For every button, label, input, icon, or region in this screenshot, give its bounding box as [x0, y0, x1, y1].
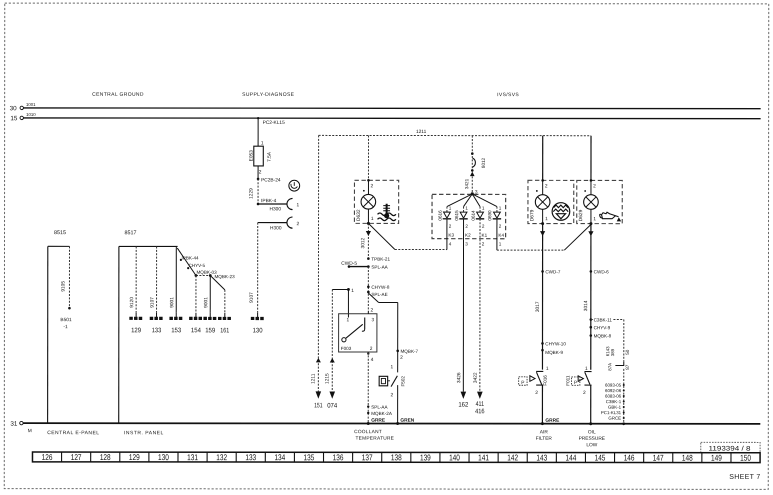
switch F003 (coolant temperature)	[339, 314, 377, 352]
wire K2 3426	[462, 219, 464, 392]
svg-text:3014: 3014	[583, 300, 589, 311]
diode 0616 (K3)	[447, 194, 472, 207]
svg-text:LOW: LOW	[586, 442, 597, 448]
splice bar	[196, 275, 210, 277]
svg-text:134: 134	[274, 452, 285, 462]
svg-text:1: 1	[482, 206, 485, 211]
node MQBK-9	[541, 349, 544, 352]
svg-text:151: 151	[314, 402, 323, 409]
svg-text:138: 138	[391, 452, 402, 462]
svg-text:K3: K3	[448, 233, 454, 238]
svg-text:TPBK-21: TPBK-21	[371, 257, 390, 262]
svg-text:9107: 9107	[249, 292, 255, 303]
svg-text:SPL-AA: SPL-AA	[371, 405, 388, 410]
wire to lamp D679	[542, 136, 544, 181]
wire 3012	[367, 223, 369, 258]
svg-text:3426: 3426	[456, 372, 462, 383]
svg-text:127: 127	[71, 452, 82, 462]
svg-text:0614: 0614	[471, 210, 476, 221]
svg-text:9001: 9001	[203, 297, 209, 308]
svg-text:129: 129	[129, 452, 140, 462]
ground 161	[224, 313, 226, 317]
svg-text:126: 126	[42, 452, 53, 462]
svg-text:9105: 9105	[60, 281, 66, 292]
lamp box D629	[577, 180, 623, 223]
node CWD-6	[590, 270, 593, 273]
svg-text:1: 1	[390, 364, 393, 370]
wire 1211 down	[317, 135, 319, 392]
svg-text:1: 1	[371, 216, 374, 222]
connector H300 pin 2	[287, 217, 293, 228]
svg-text:IPBK-4: IPBK-4	[261, 198, 277, 204]
svg-text:MQBK-7: MQBK-7	[400, 349, 418, 354]
svg-text:GRCE: GRCE	[608, 416, 621, 421]
svg-text:1: 1	[546, 366, 549, 372]
wire K3 to lamp D632	[446, 219, 448, 250]
svg-text:1001: 1001	[26, 102, 36, 107]
wire to lamp D629	[590, 136, 592, 181]
svg-text:130: 130	[253, 327, 263, 334]
svg-text:P: P	[521, 380, 524, 386]
svg-text:C3BK-1: C3BK-1	[606, 399, 622, 404]
svg-text:MQBK-2A: MQBK-2A	[371, 411, 393, 416]
svg-text:142: 142	[507, 452, 518, 462]
coolant temperature icon	[378, 204, 396, 221]
ground 153	[175, 313, 177, 317]
svg-text:CHYV-9: CHYV-9	[594, 325, 611, 330]
svg-text:GBK-1: GBK-1	[608, 405, 622, 410]
svg-text:K1: K1	[482, 233, 488, 238]
svg-text:K2: K2	[465, 233, 471, 238]
node 3 diode common	[471, 192, 474, 195]
svg-text:H300: H300	[270, 206, 282, 212]
svg-text:CHYV-5: CHYV-5	[188, 263, 205, 268]
svg-text:MQBK-23: MQBK-23	[214, 274, 235, 279]
svg-text:F011: F011	[565, 375, 570, 386]
svg-text:144: 144	[565, 452, 576, 462]
wire 3421 from 1211	[471, 136, 473, 194]
svg-text:8012: 8012	[481, 157, 486, 168]
svg-text:1215: 1215	[324, 373, 330, 384]
svg-text:159: 159	[205, 327, 215, 334]
svg-text:3012: 3012	[360, 237, 366, 248]
svg-text:147: 147	[653, 453, 664, 463]
svg-text:2: 2	[390, 392, 393, 398]
svg-text:2: 2	[259, 169, 262, 175]
svg-text:149: 149	[711, 453, 722, 463]
node CHYV-9	[590, 326, 593, 329]
node SPL-AA / stub CWD-5	[367, 265, 370, 268]
svg-text:3: 3	[372, 317, 375, 323]
wire 9001	[175, 246, 177, 312]
title block 1193394 / 8	[701, 442, 760, 452]
svg-text:CHYW-10: CHYW-10	[545, 341, 566, 346]
clock symbol	[289, 180, 300, 191]
svg-text:1: 1	[297, 202, 300, 208]
air filter icon	[552, 203, 570, 221]
node CHYW-10	[541, 342, 544, 345]
svg-text:K4: K4	[498, 233, 504, 238]
svg-text:0616: 0616	[438, 210, 443, 221]
svg-text:130: 130	[158, 452, 169, 462]
ground 133	[156, 313, 158, 317]
svg-text:148: 148	[682, 453, 693, 463]
wire to connector H300 pin 1	[258, 203, 287, 205]
svg-text:-1: -1	[63, 324, 68, 330]
wire to ground 154	[195, 276, 197, 313]
svg-text:SHEET 7: SHEET 7	[729, 474, 760, 481]
svg-text:SPL-AE: SPL-AE	[371, 292, 387, 297]
lamp box D632	[354, 180, 398, 223]
svg-text:162: 162	[458, 402, 468, 409]
svg-text:D629: D629	[578, 209, 584, 221]
svg-text:2: 2	[370, 183, 373, 189]
node PC2B-24	[257, 178, 260, 181]
ground 159	[209, 313, 211, 317]
wire below F003	[367, 352, 369, 354]
node MQBK-8	[590, 334, 593, 337]
svg-text:B501: B501	[60, 317, 72, 323]
svg-text:153: 153	[171, 327, 181, 334]
wire 1229	[257, 179, 259, 204]
svg-text:50: 50	[625, 349, 630, 355]
svg-text:150: 150	[740, 453, 751, 463]
svg-text:140: 140	[449, 452, 460, 462]
node C3BK-11	[590, 318, 593, 321]
svg-text:3421: 3421	[464, 178, 469, 189]
svg-text:D679: D679	[529, 209, 535, 221]
lamp D679	[542, 180, 544, 194]
diode box	[432, 194, 506, 238]
svg-text:136: 136	[333, 452, 344, 462]
svg-text:COOLLANT: COOLLANT	[354, 429, 382, 435]
wire 9120	[135, 246, 137, 312]
node IPBK-4	[257, 203, 260, 206]
svg-text:2: 2	[449, 224, 452, 229]
svg-text:IVS/SVS: IVS/SVS	[497, 92, 519, 98]
svg-text:2: 2	[465, 224, 468, 229]
svg-text:6093-05: 6093-05	[605, 383, 622, 388]
svg-text:1: 1	[465, 206, 468, 211]
svg-text:7.5A: 7.5A	[267, 151, 273, 162]
svg-text:P: P	[574, 380, 577, 386]
svg-text:87A: 87A	[607, 363, 612, 371]
diode 0614 (K1)	[472, 194, 480, 207]
node MQBK-7	[396, 350, 399, 353]
svg-text:AIR: AIR	[540, 429, 549, 435]
node MQBK-2A	[367, 412, 369, 414]
diagonal to diode K3	[368, 223, 395, 249]
svg-text:2: 2	[297, 221, 300, 227]
ground 129	[135, 313, 137, 317]
svg-text:1211: 1211	[311, 373, 317, 384]
svg-text:IPBK-44: IPBK-44	[181, 255, 199, 260]
wire 9107 to ground 130	[258, 222, 287, 224]
svg-text:139: 139	[420, 452, 431, 462]
svg-text:PRESSURE: PRESSURE	[579, 436, 605, 442]
svg-text:129: 129	[131, 327, 141, 334]
svg-text:H300: H300	[270, 225, 282, 231]
svg-text:30: 30	[10, 105, 18, 112]
svg-text:1: 1	[499, 206, 502, 211]
svg-text:1211: 1211	[416, 129, 427, 135]
svg-text:CENTRAL E-PANEL: CENTRAL E-PANEL	[47, 430, 99, 436]
svg-text:2: 2	[583, 390, 586, 396]
svg-text:M: M	[28, 428, 32, 434]
wire MQBK-7 branch	[368, 293, 378, 303]
svg-text:3422: 3422	[473, 372, 479, 383]
diode 0615 (K2)	[464, 194, 473, 207]
svg-text:145: 145	[595, 453, 606, 463]
wire 9105 to B501	[68, 246, 70, 308]
svg-text:1193394 / 8: 1193394 / 8	[708, 446, 750, 453]
svg-text:389: 389	[610, 348, 615, 356]
branch to PC1-KL31	[591, 319, 594, 321]
svg-text:4: 4	[449, 241, 452, 246]
svg-text:CENTRAL GROUND: CENTRAL GROUND	[92, 92, 144, 98]
node CHYW-8	[367, 285, 370, 288]
svg-text:1: 1	[347, 317, 350, 323]
svg-text:0690: 0690	[487, 210, 492, 221]
wire 3017	[541, 224, 543, 370]
svg-text:F016: F016	[543, 375, 548, 386]
svg-text:E053: E053	[249, 150, 255, 162]
svg-text:074: 074	[327, 402, 337, 409]
svg-text:TEMPERATURE: TEMPERATURE	[355, 436, 394, 442]
svg-text:C3BK-11: C3BK-11	[594, 318, 613, 323]
svg-text:F502: F502	[400, 376, 405, 387]
net 1211	[319, 134, 591, 136]
svg-text:CWD-7: CWD-7	[545, 269, 561, 274]
svg-text:1: 1	[499, 242, 502, 247]
svg-text:133: 133	[152, 327, 162, 334]
svg-text:146: 146	[624, 453, 635, 463]
svg-text:OIL: OIL	[588, 429, 596, 435]
node CWD-7	[541, 270, 544, 273]
svg-text:D632: D632	[356, 209, 362, 221]
diode 0690 (K4)	[472, 194, 497, 207]
svg-text:6083-06: 6083-06	[605, 394, 622, 399]
svg-text:6092-06: 6092-06	[605, 388, 622, 393]
svg-text:8517: 8517	[125, 230, 137, 236]
svg-text:143: 143	[536, 452, 547, 462]
svg-text:1: 1	[261, 140, 264, 146]
svg-text:2: 2	[593, 183, 596, 189]
lamp box D679	[528, 180, 574, 223]
svg-text:2: 2	[482, 224, 485, 229]
wire IPBK-44 diagonal	[177, 248, 196, 275]
connector 87A / 87	[623, 357, 625, 362]
svg-text:PC1-KL31: PC1-KL31	[601, 410, 622, 415]
svg-text:SUPPLY-DIAGNOSE: SUPPLY-DIAGNOSE	[242, 92, 295, 98]
svg-text:137: 137	[362, 452, 373, 462]
svg-text:9120: 9120	[129, 297, 135, 308]
svg-text:0615: 0615	[454, 210, 459, 221]
ground 130	[257, 313, 259, 317]
svg-text:131: 131	[187, 452, 198, 462]
wire from 1211 to lamp D632	[367, 135, 369, 180]
svg-text:1229: 1229	[249, 188, 255, 199]
wire K4 to lamp D629	[496, 219, 498, 250]
connector 8012	[472, 158, 475, 167]
svg-text:1: 1	[545, 216, 548, 222]
svg-text:F003: F003	[341, 346, 352, 351]
lamp D632	[367, 180, 369, 194]
svg-text:2: 2	[370, 346, 373, 352]
svg-text:15: 15	[10, 115, 18, 122]
node PC2-KL15	[257, 117, 259, 119]
svg-text:3: 3	[465, 241, 468, 246]
connector H300 pin 1	[287, 198, 293, 209]
oil pressure icon	[600, 212, 621, 221]
svg-text:133: 133	[245, 452, 256, 462]
svg-text:2: 2	[371, 307, 374, 313]
svg-text:MQBK-8: MQBK-8	[594, 334, 612, 339]
svg-text:128: 128	[100, 452, 111, 462]
svg-text:SPL-AA: SPL-AA	[371, 265, 388, 270]
wire K1 3422	[479, 219, 481, 392]
svg-text:2: 2	[545, 183, 548, 189]
node at lamp D632 bottom	[367, 222, 370, 225]
node	[471, 152, 474, 155]
svg-text:8515: 8515	[54, 230, 66, 236]
svg-text:9107: 9107	[150, 297, 156, 308]
wire 9001 to ground 159	[209, 276, 211, 313]
svg-text:2: 2	[499, 224, 502, 229]
svg-text:1: 1	[351, 288, 354, 294]
svg-text:FILTER: FILTER	[536, 436, 553, 442]
svg-text:INSTR. PANEL: INSTR. PANEL	[124, 430, 164, 436]
wire 1215 down	[331, 289, 333, 392]
svg-text:MQBK-9: MQBK-9	[545, 350, 563, 355]
svg-text:411: 411	[476, 401, 485, 408]
svg-text:31: 31	[10, 421, 18, 428]
node TPBK-21	[367, 257, 370, 260]
svg-text:154: 154	[191, 327, 201, 334]
svg-text:CHYW-8: CHYW-8	[371, 285, 389, 290]
svg-text:1: 1	[593, 216, 596, 222]
wire to F003 pin 1	[332, 288, 348, 290]
wire 3014	[590, 224, 592, 370]
svg-text:161: 161	[220, 327, 229, 334]
svg-text:3017: 3017	[535, 301, 541, 312]
svg-text:1: 1	[449, 206, 452, 211]
wire 9107	[156, 246, 158, 312]
svg-text:PC2-KL15: PC2-KL15	[263, 120, 285, 126]
svg-text:135: 135	[304, 452, 315, 462]
svg-text:2: 2	[400, 355, 403, 361]
svg-text:416: 416	[475, 408, 485, 415]
svg-text:2: 2	[482, 241, 485, 246]
ground 154	[195, 313, 197, 317]
svg-text:CWD-6: CWD-6	[594, 269, 610, 274]
wire MQBK-23 diagonal	[210, 276, 225, 290]
svg-text:132: 132	[216, 452, 227, 462]
node SPL-AE	[367, 291, 370, 294]
svg-text:141: 141	[478, 452, 489, 462]
svg-text:1010: 1010	[26, 112, 36, 117]
lamp D629	[590, 180, 592, 194]
svg-text:4: 4	[371, 357, 374, 363]
svg-text:87: 87	[625, 364, 630, 370]
node SPL-AA	[367, 405, 369, 407]
svg-text:PC2B-24: PC2B-24	[261, 177, 281, 183]
svg-text:2: 2	[535, 390, 538, 396]
grid ruler 126-150	[32, 452, 760, 463]
svg-text:9001: 9001	[169, 297, 175, 308]
